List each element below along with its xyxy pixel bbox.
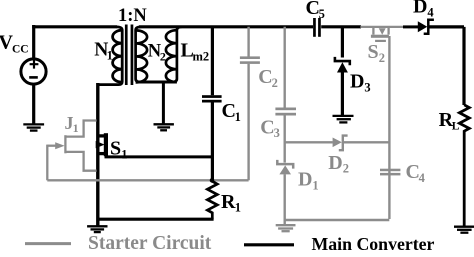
svg-text:2: 2 bbox=[379, 51, 385, 65]
svg-text:Starter Circuit: Starter Circuit bbox=[88, 233, 212, 254]
svg-text:m2: m2 bbox=[193, 49, 210, 63]
svg-text:1: 1 bbox=[121, 147, 127, 161]
ground (under N2) bbox=[154, 124, 174, 130]
svg-text:Main Converter: Main Converter bbox=[312, 234, 435, 254]
wire bottom rail S1 to R1 bbox=[98, 218, 214, 221]
svg-text:CC: CC bbox=[12, 44, 29, 56]
svg-text:4: 4 bbox=[427, 6, 434, 20]
capacitor C4 (gray) bbox=[380, 169, 400, 172]
svg-text:R: R bbox=[221, 191, 236, 213]
transformer core bbox=[125, 25, 128, 86]
wire Vcc stem top bbox=[32, 25, 35, 59]
svg-text:3: 3 bbox=[364, 80, 370, 94]
capacitor C2 bbox=[240, 56, 260, 59]
wire top rail C5 to D3 to S2 bbox=[321, 25, 361, 28]
transformer secondary N2 bbox=[136, 27, 141, 82]
ground (under D3) bbox=[333, 116, 354, 123]
svg-text:4: 4 bbox=[419, 171, 426, 185]
diode D2 (gray schottky) bbox=[333, 138, 342, 148]
diode D3 branch bbox=[341, 27, 344, 116]
svg-text:3: 3 bbox=[274, 126, 280, 140]
wire gray feedback line J1 gate to C2 bottom bbox=[47, 179, 248, 181]
svg-text:1: 1 bbox=[235, 110, 241, 124]
magnetizing inductance Lm2 winding bbox=[173, 27, 182, 82]
wire D4 to RL corner bbox=[430, 27, 465, 105]
ground (under S1) bbox=[87, 226, 107, 232]
svg-text:1: 1 bbox=[312, 178, 318, 192]
svg-text:2: 2 bbox=[343, 162, 349, 176]
capacitor C5 bbox=[313, 18, 316, 37]
legend starter line (gray) bbox=[25, 242, 71, 245]
wire Vcc stem bottom bbox=[32, 84, 35, 125]
diode D1 (gray schottky) bbox=[277, 160, 293, 169]
source VCC bbox=[21, 59, 46, 84]
svg-text:C: C bbox=[258, 66, 272, 88]
node R1 top junction bbox=[210, 178, 215, 183]
wire top rail left (Vcc to N1) bbox=[32, 25, 117, 28]
wire winding center tap stub bbox=[162, 82, 165, 124]
wire top rail right (N2 to C5) bbox=[139, 25, 313, 28]
capacitor C3 / diode D1 branch (gray) bbox=[284, 27, 286, 225]
resistor RL bbox=[459, 105, 469, 226]
wire S2 gate drop to D2/C4 node bbox=[388, 36, 390, 219]
MOSFET S2 (gray) bbox=[360, 27, 403, 35]
svg-text:D: D bbox=[350, 71, 364, 93]
svg-text:D: D bbox=[413, 0, 427, 18]
capacitor C1 bbox=[202, 95, 222, 98]
JFET J1 (gray) bbox=[47, 121, 96, 181]
svg-text:1: 1 bbox=[107, 49, 113, 63]
wire gray bottom line D1 to C4 bbox=[285, 219, 390, 221]
ground (under RL) bbox=[454, 227, 474, 233]
ground (under D1, gray) bbox=[276, 225, 296, 231]
wire D2 cathode to S2/C4 node (gray) bbox=[344, 141, 389, 143]
wire S1 source to R1 top node bbox=[105, 155, 212, 158]
svg-text:C: C bbox=[260, 116, 274, 138]
svg-text:5: 5 bbox=[319, 7, 325, 21]
svg-text:1:N: 1:N bbox=[118, 6, 147, 26]
svg-text:D: D bbox=[328, 152, 342, 174]
svg-text:2: 2 bbox=[272, 76, 278, 90]
resistor R1 bbox=[207, 181, 217, 219]
svg-text:S: S bbox=[368, 41, 379, 63]
legend main line (black) bbox=[244, 243, 294, 246]
ground (under Vcc) bbox=[23, 124, 44, 130]
MOSFET S1 bbox=[98, 134, 105, 137]
wire winding bottom rail bbox=[139, 81, 175, 84]
capacitor C2 branch (gray) bbox=[247, 27, 249, 181]
svg-text:L: L bbox=[452, 121, 460, 133]
svg-text:1: 1 bbox=[235, 201, 241, 215]
MOSFET S1 drain/source rail bbox=[96, 83, 99, 226]
capacitor C1 branch wire bbox=[211, 27, 214, 181]
transformer primary N1 bbox=[98, 27, 122, 85]
svg-text:D: D bbox=[298, 169, 312, 191]
wire S2 to D4 anode bbox=[403, 25, 418, 28]
capacitor C3 bbox=[275, 108, 296, 111]
wire D1 node to D2 anode (gray) bbox=[285, 141, 333, 143]
diode D4 (schottky) bbox=[418, 21, 428, 32]
svg-text:1: 1 bbox=[73, 121, 79, 135]
